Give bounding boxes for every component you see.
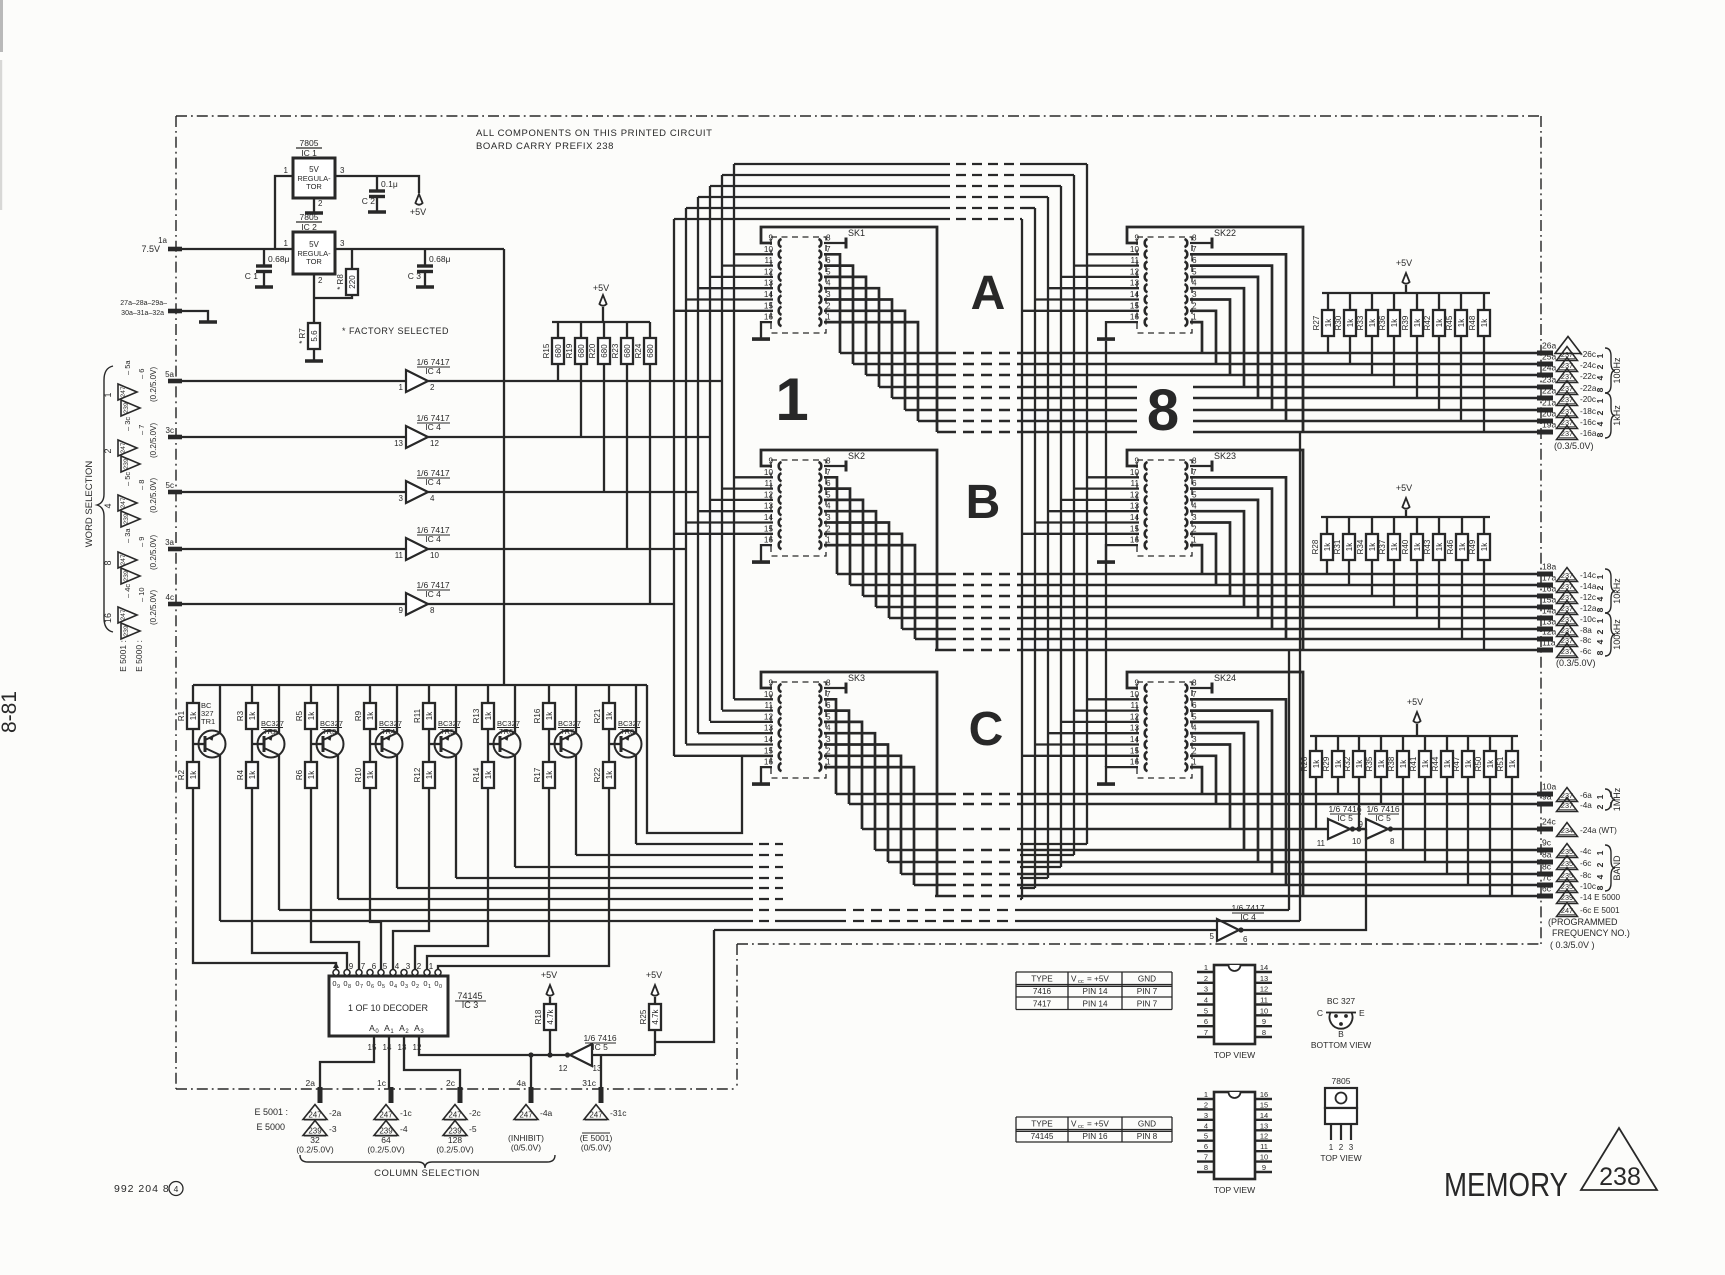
svg-text:1k: 1k (307, 711, 316, 720)
svg-text:1: 1 (103, 392, 113, 397)
svg-text:R20: R20 (588, 343, 597, 358)
svg-text:8: 8 (1147, 378, 1179, 443)
SK3 pin 10 (779, 695, 782, 703)
svg-text:2: 2 (826, 524, 831, 533)
7805 leg 3 (1350, 1124, 1352, 1140)
package pin 14 (1255, 971, 1272, 973)
wire R33 to bus A line 3 (1371, 336, 1373, 375)
package pin 1 (1197, 1098, 1214, 1100)
wire output bus C line 8 (935, 895, 945, 898)
svg-text:R13: R13 (472, 708, 481, 723)
svg-text:4: 4 (430, 494, 435, 503)
wire SK2 pin 5 to bus (824, 500, 863, 596)
svg-text:R14: R14 (472, 767, 481, 782)
svg-text:cc: cc (1078, 1124, 1084, 1130)
SK22 pin 7 (1185, 250, 1188, 258)
svg-text:5: 5 (826, 267, 831, 276)
wire IC2 pin2 (313, 274, 315, 323)
svg-text:3c: 3c (166, 426, 174, 435)
wire buffer output row 3c (428, 436, 710, 438)
SK1 pin 1 (819, 318, 822, 326)
svg-text:7: 7 (1204, 1028, 1208, 1037)
wire SK1 pin 4 to bus (824, 288, 879, 387)
svg-text:– 3c: – 3c (123, 417, 132, 431)
svg-text:(INHIBIT): (INHIBIT) (508, 1133, 544, 1143)
wire column 3 to SK1 pin 12 (710, 276, 773, 278)
svg-text:– 3a: – 3a (123, 528, 132, 543)
wire output bus B line 6 (902, 628, 945, 631)
resistor R45 1k (1460, 293, 1462, 310)
svg-text:(0.2/5.0V): (0.2/5.0V) (367, 1145, 404, 1155)
wire TR3 collector to bus (337, 755, 339, 899)
wire column 5 to SK24 pin 14 (1035, 743, 1139, 745)
svg-text:247: 247 (1561, 906, 1573, 915)
output terminal 17a (1537, 583, 1553, 588)
svg-text:A: A (399, 1023, 405, 1033)
wire R30 to bus A line 2 (1349, 336, 1351, 364)
svg-text:9: 9 (1134, 234, 1139, 243)
svg-text:IC 4: IC 4 (425, 477, 441, 487)
SK23 pin 14 (1145, 518, 1148, 526)
svg-text:1k: 1k (1486, 759, 1495, 768)
wire TR4 collector to bus (396, 755, 398, 888)
svg-text:239: 239 (123, 402, 130, 414)
resistor R18 4.7k (546, 985, 553, 996)
wire column 2 to SK24 pin 11 (1074, 709, 1139, 711)
wire column 3 to SK2 pin 12 (710, 499, 773, 501)
wire column 1 to SK2 pin 10 (734, 476, 773, 478)
svg-text:3: 3 (340, 239, 345, 248)
wire R43 to bus B line 6 (1438, 560, 1440, 629)
wire top bus line 4 (698, 196, 940, 198)
wire word line TR1 (220, 920, 743, 922)
svg-text:(0.2/5.0V): (0.2/5.0V) (149, 535, 158, 570)
svg-text:4: 4 (1595, 874, 1605, 879)
resistor R25 4.7k (651, 985, 658, 996)
svg-text:(0.2/5.0V): (0.2/5.0V) (149, 367, 158, 402)
svg-text:237: 237 (1561, 647, 1573, 656)
column selection brace (300, 1155, 555, 1168)
decoder output pin 4 (390, 970, 396, 976)
svg-text:9: 9 (349, 962, 354, 971)
wire TR6 emitter to rail (514, 685, 516, 733)
svg-text:1: 1 (826, 313, 831, 322)
wire SK3 pin 4 to bus (824, 733, 875, 850)
svg-text:8: 8 (1192, 457, 1197, 466)
bracket 10kHz (1605, 569, 1615, 613)
svg-text:0: 0 (389, 979, 393, 988)
package pin 16 (1255, 1098, 1272, 1100)
svg-text:1k: 1k (425, 711, 434, 720)
svg-text:R24: R24 (634, 343, 643, 358)
svg-text:13: 13 (1130, 724, 1140, 733)
SK22 pin 5 (1185, 273, 1188, 281)
wire output bus C line 5 (888, 861, 945, 864)
svg-text:-14c: -14c (1580, 571, 1596, 580)
svg-text:9: 9 (768, 457, 773, 466)
SK23 pin 8 terminator (1190, 465, 1212, 467)
svg-text:E 5000 :: E 5000 : (134, 640, 144, 672)
SK24 pin 8 (1185, 684, 1188, 692)
package DIP-16 top view (1214, 1092, 1255, 1179)
svg-text:2: 2 (318, 199, 323, 208)
border frame bottom left segment (176, 1088, 737, 1090)
wire TR7 collector to bus (575, 755, 577, 855)
wire decoder pin13 to 2c (404, 1036, 460, 1089)
SK3 pin 14 (779, 740, 782, 748)
svg-text:5: 5 (1192, 267, 1197, 276)
svg-text:C: C (1317, 1008, 1323, 1018)
svg-text:1k: 1k (1443, 759, 1452, 768)
svg-text:237: 237 (1561, 791, 1573, 800)
svg-text:R12: R12 (413, 767, 422, 782)
SK2 pin 4 (819, 507, 822, 515)
wire IC2 pin3 output rail (335, 248, 504, 250)
svg-text:7805: 7805 (1332, 1076, 1351, 1086)
svg-text:1k: 1k (1480, 542, 1489, 551)
svg-text:PIN 7: PIN 7 (1137, 987, 1158, 996)
svg-text:0: 0 (366, 979, 370, 988)
wire output bus C line 3 between inverters (1355, 828, 1366, 831)
wire SK1 pin 6 to bus (824, 266, 853, 364)
svg-text:R1: R1 (177, 710, 186, 721)
wire column 4 to SK1 pin 13 (698, 287, 773, 289)
svg-text:* R8: * R8 (336, 274, 345, 290)
wire buffer output row 5c (428, 491, 698, 493)
svg-text:10: 10 (764, 245, 774, 254)
svg-text:14: 14 (764, 290, 774, 299)
pointer triangle 235 -10c (1557, 879, 1578, 893)
svg-text:1k: 1k (545, 770, 554, 779)
wire output bus A line 4 (879, 386, 945, 389)
svg-text:1k: 1k (1390, 318, 1399, 327)
SK24 pin 4 (1185, 729, 1188, 737)
svg-text:-5: -5 (469, 1124, 477, 1134)
svg-text:9: 9 (768, 679, 773, 688)
output terminal 24c (1537, 827, 1553, 832)
svg-text:3: 3 (1204, 985, 1208, 994)
svg-text:10: 10 (430, 551, 439, 560)
svg-text:7: 7 (1204, 1153, 1208, 1162)
SK1 pin 12 (779, 273, 782, 281)
title triangle 238 (1581, 1128, 1657, 1190)
output terminal 18a (1537, 572, 1553, 577)
pointer triangle 237 -8c (1557, 633, 1578, 647)
wire TR8 collector to bus (635, 755, 637, 844)
svg-text:6c: 6c (1542, 884, 1552, 894)
SK1 pin 16 (779, 318, 782, 326)
svg-text:1k: 1k (1435, 318, 1444, 327)
SK1 pin 13 (779, 284, 782, 292)
svg-text:IC 5: IC 5 (1337, 813, 1353, 823)
svg-text:-10c: -10c (1580, 882, 1596, 891)
svg-text:4: 4 (174, 1184, 179, 1194)
output terminal 13a (1537, 627, 1553, 632)
wire R27 to bus A line 1 (1327, 336, 1329, 353)
resistor R16 1k (548, 685, 550, 703)
SK2 pin 10 (779, 473, 782, 481)
svg-text:247: 247 (448, 1110, 462, 1119)
scan edge mark (0, 0, 3, 52)
wire SK3 pin 3 to bus (824, 745, 888, 863)
svg-text:992 204 8: 992 204 8 (114, 1183, 170, 1195)
resistor R33 1k (1371, 293, 1373, 310)
svg-text:1k: 1k (1377, 759, 1386, 768)
svg-text:1: 1 (1595, 794, 1605, 799)
wire rail to SK3 pin15 loop (647, 685, 773, 833)
wire column 2 to SK1 pin 11 (722, 264, 773, 266)
svg-text:14: 14 (1130, 735, 1140, 744)
svg-text:1: 1 (1192, 313, 1197, 322)
wire SK3 pin 7 to bus (824, 699, 836, 794)
SK22 pin 6 (1185, 262, 1188, 270)
SK1 pin 2 (819, 307, 822, 315)
svg-text:4: 4 (826, 279, 831, 288)
svg-text:-8c: -8c (1580, 871, 1591, 880)
capacitor C3 0.68u (424, 249, 426, 265)
svg-text:1k: 1k (545, 711, 554, 720)
wire TR3 base network to decoder pin (311, 787, 359, 969)
svg-text:1: 1 (1204, 963, 1208, 972)
svg-text:4.7k: 4.7k (546, 1008, 555, 1024)
package pin 8 (1197, 1171, 1214, 1173)
decoder output pin 0 (435, 970, 441, 976)
package pin 9 (1255, 1171, 1272, 1173)
svg-text:E 5001 :: E 5001 : (118, 640, 128, 672)
svg-text:13: 13 (1260, 974, 1268, 983)
svg-text:247: 247 (120, 386, 127, 398)
svg-text:14: 14 (1260, 963, 1268, 972)
svg-text:2: 2 (103, 448, 113, 453)
pointer triangle 237 -14a (1557, 579, 1578, 593)
wire TR4 emitter to rail (396, 685, 398, 733)
svg-text:25a: 25a (1542, 352, 1556, 362)
svg-text:8: 8 (1390, 837, 1395, 846)
svg-text:7805: 7805 (300, 212, 319, 222)
wire column 5 to SK3 pin 14 (686, 743, 773, 745)
svg-text:1k: 1k (189, 711, 198, 720)
+5V arrow array A (1402, 273, 1409, 284)
SK3 pin 8 (819, 684, 822, 692)
svg-text:1k: 1k (1413, 542, 1422, 551)
svg-text:(0.3/5.0V): (0.3/5.0V) (1554, 441, 1594, 451)
svg-text:R5: R5 (295, 710, 304, 721)
wire SK23 pin 7 to bus (1190, 477, 1286, 639)
svg-text:TR3: TR3 (322, 727, 336, 736)
svg-text:SK23: SK23 (1214, 451, 1236, 461)
wire output bus C line 7 (914, 884, 945, 887)
svg-text:6: 6 (1204, 1142, 1208, 1151)
svg-text:8: 8 (1192, 679, 1197, 688)
resistor R41 1k (1424, 736, 1426, 751)
pointer triangle 235 -6c (1557, 856, 1578, 870)
svg-text:9c: 9c (1542, 838, 1552, 848)
resistor R40 1k (1416, 517, 1418, 534)
svg-text:-2a: -2a (329, 1108, 342, 1118)
SK22 pin 8 terminator (1190, 242, 1212, 244)
svg-text:7c: 7c (1542, 873, 1552, 883)
decoder output pin 7 (356, 970, 362, 976)
svg-text:BAND: BAND (1612, 855, 1622, 881)
svg-text:2: 2 (1204, 974, 1208, 983)
wire output bus B line 4 (876, 606, 945, 609)
svg-text:18a: 18a (1542, 562, 1556, 572)
svg-text:– 6: – 6 (137, 369, 146, 379)
SK1 pin 9 (779, 239, 782, 247)
wire column 1 to SK22 pin 10 (1087, 253, 1139, 255)
decoder output pin 9 (333, 970, 339, 976)
wire SK23 pin 3 to bus (1190, 523, 1230, 597)
wire column 6 to SK1 pin 15 (674, 310, 773, 312)
wire R15-R24 top rail (552, 321, 650, 323)
resistor R29 1k (1337, 736, 1339, 751)
svg-text:E: E (1359, 1008, 1365, 1018)
package pin 12 (1255, 1140, 1272, 1142)
svg-text:220: 220 (348, 275, 357, 289)
svg-text:1k: 1k (1346, 318, 1355, 327)
svg-text:C 2: C 2 (362, 196, 376, 206)
wire column 6 to SK22 pin 15 (1022, 310, 1139, 312)
wire R38 to bus C (1402, 777, 1404, 850)
pointer triangle 239 -4 (374, 1121, 398, 1136)
svg-text:1: 1 (429, 962, 434, 971)
svg-text:16a: 16a (1542, 584, 1556, 594)
wire input 5a to buffer (181, 380, 406, 382)
svg-text:1: 1 (1204, 1090, 1208, 1099)
wire input 3a to buffer (181, 548, 406, 550)
wire column 2 to SK2 pin 11 (722, 487, 773, 489)
svg-text:ALL COMPONENTS ON THIS PRI: ALL COMPONENTS ON THIS PRINTED CIRCUIT (476, 128, 713, 139)
svg-text:-8c: -8c (1580, 636, 1591, 645)
wire column 5 to SK23 pin 14 (1035, 521, 1139, 523)
word selection bracket (97, 366, 113, 632)
wire output bus A line 1 (840, 352, 945, 355)
svg-text:1: 1 (284, 239, 289, 248)
wire output bus A line 8 (937, 431, 945, 434)
decoder output pin 5 (378, 970, 384, 976)
svg-text:2: 2 (417, 962, 422, 971)
svg-text:(0.2/5.0V): (0.2/5.0V) (149, 478, 158, 513)
resistor R6 1k (305, 762, 317, 788)
7805 leg 1 (1330, 1124, 1332, 1140)
svg-text:2: 2 (826, 301, 831, 310)
wire R26 to bus C (1315, 777, 1317, 829)
package pin 4 (1197, 1003, 1214, 1005)
svg-text:BOARD CARRY PREFIX 238: BOARD CARRY PREFIX 238 (476, 141, 614, 152)
svg-text:2: 2 (416, 984, 419, 990)
SK22 pin 15 (1145, 307, 1148, 315)
output terminal 25a (1537, 362, 1553, 367)
wire decoder pin15 to 2a (320, 1036, 374, 1089)
svg-text:5: 5 (383, 962, 388, 971)
wire SK24 pin9 loop box (1127, 672, 1303, 896)
output terminal 12a (1537, 637, 1553, 642)
table outline (1016, 1116, 1172, 1118)
resistor R38 1k (1402, 736, 1404, 751)
svg-text:FREQUENCY NO.): FREQUENCY NO.) (1552, 928, 1630, 938)
svg-text:-6c: -6c (1580, 647, 1591, 656)
svg-text:11: 11 (1260, 1142, 1268, 1151)
wire 27a-32a to ground (181, 311, 208, 321)
wire column 4 to SK2 pin 13 (698, 510, 773, 512)
pointer triangle 237 -8a (1557, 623, 1578, 637)
svg-text:R49: R49 (1468, 539, 1477, 554)
svg-text:-4a: -4a (1580, 801, 1592, 810)
svg-text:247: 247 (379, 1110, 393, 1119)
SK2 pin 6 (819, 485, 822, 493)
svg-text:IC 4: IC 4 (425, 534, 441, 544)
svg-text:-2c: -2c (469, 1108, 482, 1118)
svg-text:PIN 8: PIN 8 (1137, 1132, 1158, 1141)
svg-text:1k: 1k (1480, 318, 1489, 327)
wire TR2 base network to decoder pin (252, 787, 347, 969)
svg-text:1k: 1k (1435, 542, 1444, 551)
wire SK1 pin 1 to bus (824, 322, 918, 421)
output terminal 21a (1537, 408, 1553, 413)
svg-text:7: 7 (826, 245, 831, 254)
transistor Q TR6 BC327 (487, 729, 489, 762)
svg-text:1k: 1k (605, 770, 614, 779)
svg-text:R10: R10 (354, 767, 363, 782)
svg-text:TYPE: TYPE (1031, 1119, 1053, 1128)
wire word column left 2 (721, 175, 723, 710)
svg-text:0.68μ: 0.68μ (429, 254, 451, 264)
wire output bus A line 2 (853, 363, 945, 366)
wire column 1 to SK1 pin 10 (734, 253, 773, 255)
package pin 5 (1197, 1014, 1214, 1016)
svg-text:TOR: TOR (306, 182, 322, 191)
resistor R35 1k (1380, 736, 1382, 751)
svg-text:TR1: TR1 (201, 717, 215, 726)
svg-text:4c: 4c (166, 593, 174, 602)
svg-text:8: 8 (1192, 234, 1197, 243)
package DIP-14 top view (1214, 965, 1255, 1044)
pointer triangle 237 -22a (1557, 381, 1578, 395)
wire column 4 to SK24 pin 13 (1048, 732, 1139, 734)
SK3 pin 9 (779, 684, 782, 692)
SK22 pin 3 (1185, 295, 1188, 303)
svg-text:27a–28a–29a–: 27a–28a–29a– (120, 300, 167, 307)
svg-text:6: 6 (826, 479, 831, 488)
svg-text:14: 14 (1130, 290, 1140, 299)
svg-text:16: 16 (1130, 536, 1140, 545)
wire R36 to bus A line 4 (1393, 336, 1395, 387)
svg-text:0: 0 (355, 979, 359, 988)
svg-text:TR6: TR6 (499, 727, 513, 736)
SK3 pin 15 (779, 752, 782, 760)
svg-text:11: 11 (765, 479, 774, 488)
bracket 1MHz (1605, 789, 1615, 810)
package pin 10 (1255, 1014, 1272, 1016)
wire inverter pin13 to R25 (592, 1054, 655, 1056)
svg-text:12: 12 (559, 1064, 568, 1073)
svg-text:3: 3 (1349, 1143, 1354, 1152)
svg-text:8: 8 (826, 234, 831, 243)
package pin 12 (1255, 992, 1272, 994)
SK24 pin 16 ground (1106, 767, 1138, 783)
svg-text:1k: 1k (1323, 542, 1332, 551)
svg-text:13: 13 (1130, 502, 1140, 511)
svg-text:247: 247 (120, 442, 127, 454)
bracket 100kHz (1605, 613, 1615, 656)
svg-text:1k: 1k (1399, 759, 1408, 768)
wire buffer output row 4c (428, 603, 674, 605)
svg-text:9: 9 (399, 606, 404, 615)
svg-text:TOP VIEW: TOP VIEW (1214, 1185, 1255, 1195)
wire 31c tap (600, 1055, 602, 1089)
svg-text:6: 6 (826, 256, 831, 265)
svg-text:3: 3 (405, 984, 408, 990)
